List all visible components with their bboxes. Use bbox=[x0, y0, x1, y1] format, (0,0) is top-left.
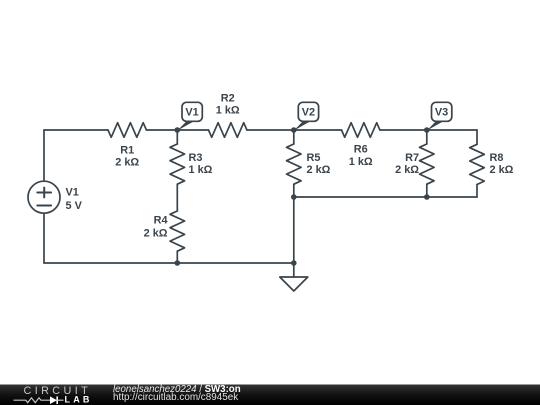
svg-text:R1: R1 bbox=[120, 145, 134, 157]
resistor R2 bbox=[209, 123, 247, 138]
node tag V2 box bbox=[298, 102, 318, 121]
wire ground stub bbox=[293, 263, 295, 277]
svg-text:R7: R7 bbox=[405, 152, 419, 164]
svg-text:2 kΩ: 2 kΩ bbox=[307, 164, 331, 176]
svg-text:V1: V1 bbox=[185, 107, 198, 119]
wire R1 to node V1 and to R2 bbox=[146, 129, 208, 131]
wire R2 to node V2 and to R6 bbox=[247, 129, 342, 131]
svg-text:2 kΩ: 2 kΩ bbox=[395, 164, 419, 176]
node tag V1 box bbox=[182, 102, 202, 121]
wire mid rail bbox=[294, 196, 477, 198]
wire node V2 down to R5 bbox=[293, 130, 295, 144]
wire R7 to mid rail bbox=[426, 184, 428, 197]
resistor R8 bbox=[470, 144, 485, 184]
logo resistor squiggle bbox=[14, 398, 51, 403]
junction node V2 bbox=[291, 127, 297, 133]
wire left rail upper bbox=[43, 130, 45, 181]
junction ground bbox=[291, 260, 297, 266]
svg-text:R3: R3 bbox=[189, 152, 203, 164]
wire mid rail down to bottom rail bbox=[293, 197, 295, 263]
resistor R5 bbox=[287, 144, 302, 184]
wire R3 to R4 bbox=[176, 184, 178, 211]
svg-text:R8: R8 bbox=[490, 152, 504, 164]
ground symbol bbox=[280, 277, 308, 291]
svg-text:http://circuitlab.com/c8945ek: http://circuitlab.com/c8945ek bbox=[113, 392, 238, 403]
svg-text:V3: V3 bbox=[435, 107, 448, 119]
svg-text:R4: R4 bbox=[154, 215, 168, 227]
node tag V3 pointer bbox=[427, 121, 444, 130]
logo diode symbol bbox=[50, 396, 57, 404]
svg-text:R5: R5 bbox=[307, 152, 321, 164]
V1 plus sign bbox=[37, 192, 51, 194]
wire R4 to bottom rail bbox=[176, 251, 178, 263]
node tag V3 box bbox=[432, 102, 452, 121]
svg-text:5 V: 5 V bbox=[66, 200, 83, 212]
resistor R3 bbox=[170, 144, 185, 184]
wire R8 to mid rail bbox=[476, 185, 478, 198]
svg-text:1 kΩ: 1 kΩ bbox=[189, 164, 213, 176]
junction R7 bottom bbox=[424, 194, 430, 200]
svg-text:V1: V1 bbox=[66, 187, 79, 199]
V1 minus sign bbox=[37, 205, 51, 207]
wire right corner down to R8 bbox=[476, 130, 478, 144]
wire top: left rail to R1 bbox=[44, 129, 108, 131]
node tag V2 pointer bbox=[294, 121, 311, 130]
svg-text:LAB: LAB bbox=[65, 395, 93, 405]
resistor R1 bbox=[108, 123, 146, 138]
svg-text:R6: R6 bbox=[354, 144, 368, 156]
wire R5 to mid rail bbox=[293, 184, 295, 197]
voltage source V1 circle bbox=[28, 181, 60, 213]
junction R5 bottom bbox=[291, 194, 297, 200]
svg-text:R2: R2 bbox=[221, 93, 235, 105]
resistor R4 bbox=[170, 211, 185, 251]
junction node V3 bbox=[424, 127, 430, 133]
resistor R7 bbox=[420, 144, 435, 184]
svg-text:2 kΩ: 2 kΩ bbox=[144, 228, 168, 240]
junction R4 bottom bbox=[175, 260, 181, 266]
svg-text:V2: V2 bbox=[302, 107, 315, 119]
svg-text:2 kΩ: 2 kΩ bbox=[115, 157, 139, 169]
node tag V1 pointer bbox=[177, 121, 194, 130]
svg-text:2 kΩ: 2 kΩ bbox=[490, 164, 514, 176]
wire R6 to node V3 and right corner bbox=[380, 129, 477, 131]
wire node V1 down to R3 bbox=[176, 130, 178, 144]
svg-text:1 kΩ: 1 kΩ bbox=[216, 105, 240, 117]
svg-text:1 kΩ: 1 kΩ bbox=[349, 156, 373, 168]
resistor R6 bbox=[342, 123, 380, 138]
wire left rail lower bbox=[43, 213, 45, 263]
junction node V1 bbox=[175, 127, 181, 133]
wire node V3 down to R7 bbox=[426, 130, 428, 144]
wire bottom rail bbox=[44, 262, 294, 264]
